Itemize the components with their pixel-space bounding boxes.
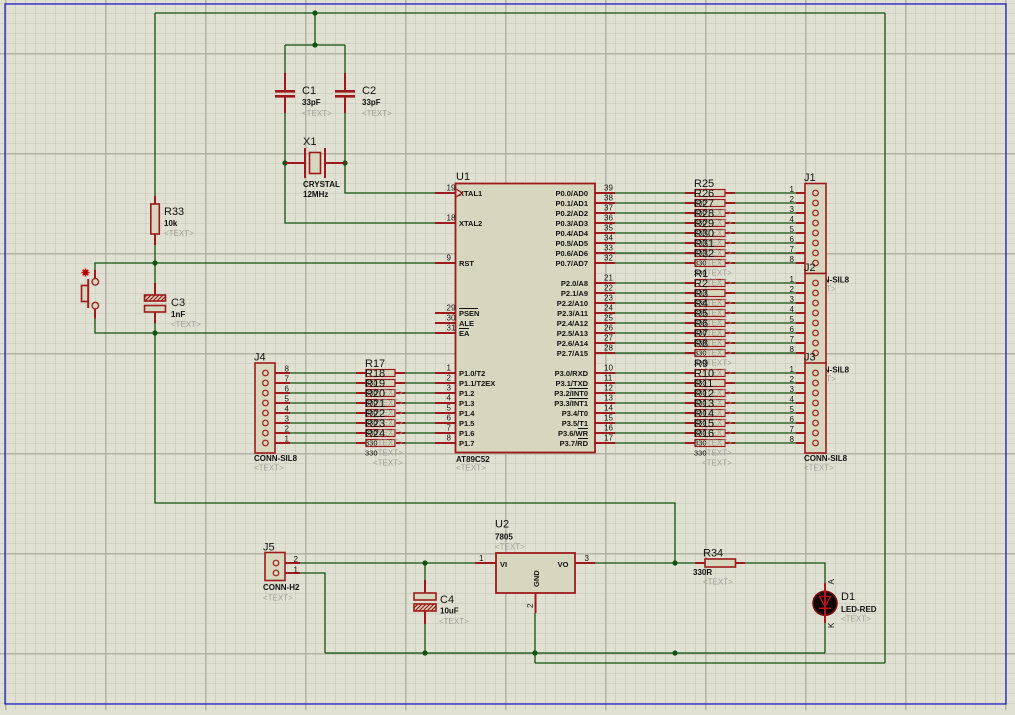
U2 pin 1 (VI) <box>475 554 507 569</box>
svg-text:3: 3 <box>447 384 452 393</box>
svg-text:P0.4/AD4: P0.4/AD4 <box>555 229 588 238</box>
svg-text:4: 4 <box>447 394 452 403</box>
svg-text:6: 6 <box>790 415 795 424</box>
U1 pin 29 (PSEN) <box>435 304 479 319</box>
U1 pin 1 (P1.0/T2) <box>435 364 485 379</box>
resistor R15 330 <box>685 430 735 437</box>
wire R8 to J2 pin 8 <box>735 352 796 354</box>
wire R10 to J3 pin 2 <box>735 382 796 384</box>
J2 pin 1 <box>790 275 819 286</box>
svg-text:P3.3/INT1: P3.3/INT1 <box>554 399 588 408</box>
capacitor C4 10uF <box>414 580 436 624</box>
wire U1 P2.3 to R4 <box>615 312 685 314</box>
svg-text:8: 8 <box>447 434 452 443</box>
J3 pin 7 <box>790 425 819 436</box>
J1 pin 6 <box>790 235 819 246</box>
LED D1 LED-RED <box>812 583 838 623</box>
svg-text:R16: R16 <box>694 428 714 440</box>
svg-text:<TEXT>: <TEXT> <box>254 464 284 473</box>
J3 pin 4 <box>790 395 819 406</box>
svg-text:<TEXT>: <TEXT> <box>373 449 403 458</box>
U1 pin 13 (P3.3/INT1) <box>554 394 615 409</box>
svg-text:5: 5 <box>447 404 452 413</box>
node junction on ground rail A <box>672 650 677 655</box>
wire J4 pin 8 to R17 <box>290 372 356 374</box>
resistor R32 330 <box>685 260 735 267</box>
svg-text:2: 2 <box>790 195 795 204</box>
svg-text:C1: C1 <box>302 85 316 97</box>
wire R7 to J2 pin 7 <box>735 342 796 344</box>
svg-text:34: 34 <box>604 234 613 243</box>
svg-text:C2: C2 <box>362 85 376 97</box>
J2 pin 2 <box>790 285 819 296</box>
U2 pin 3 (VO) <box>558 554 595 569</box>
J2 pin 6 <box>790 325 819 336</box>
U1 pin 22 (P2.1/A9) <box>561 284 615 299</box>
svg-text:CONN-SIL8: CONN-SIL8 <box>804 454 848 463</box>
svg-text:35: 35 <box>604 224 613 233</box>
wire ground rail B <box>535 662 885 664</box>
wire R28 to J1 pin 4 <box>735 222 796 224</box>
svg-text:C4: C4 <box>440 594 454 606</box>
svg-text:7: 7 <box>790 245 795 254</box>
wire RST node to C3 <box>154 263 156 283</box>
wire U1 P0.5 to R30 <box>615 242 685 244</box>
U1 pin 9 (RST) <box>435 254 474 269</box>
svg-text:P3.1/TXD: P3.1/TXD <box>555 379 588 388</box>
svg-text:P1.1/T2EX: P1.1/T2EX <box>459 379 495 388</box>
svg-text:4: 4 <box>790 395 795 404</box>
wire LED cathode to ground rail A <box>824 623 826 653</box>
svg-text:25: 25 <box>604 314 613 323</box>
svg-text:10k: 10k <box>164 219 178 228</box>
svg-text:<TEXT>: <TEXT> <box>702 449 732 458</box>
svg-text:J2: J2 <box>804 262 816 274</box>
svg-text:19: 19 <box>447 184 456 193</box>
U1 pin 8 (P1.7) <box>435 434 474 449</box>
capacitor C2 33pF <box>335 73 355 113</box>
wire C1-C2 top link <box>285 44 345 46</box>
svg-text:6: 6 <box>790 325 795 334</box>
svg-text:30: 30 <box>447 314 456 323</box>
wire J5 pin1 to ground rail A <box>300 573 325 653</box>
svg-text:13: 13 <box>604 394 613 403</box>
U1 pin 4 (P1.3) <box>435 394 474 409</box>
svg-text:1: 1 <box>790 185 795 194</box>
J3 pin 1 <box>790 365 819 376</box>
J1 pin 2 <box>790 195 819 206</box>
J4 pin 8 <box>263 365 290 376</box>
wire U1 P2.1 to R2 <box>615 292 685 294</box>
svg-text:<TEXT>: <TEXT> <box>841 615 871 624</box>
svg-text:2: 2 <box>790 285 795 294</box>
svg-text:GND: GND <box>532 570 541 587</box>
wire R26 to J1 pin 2 <box>735 202 796 204</box>
svg-text:330R: 330R <box>693 568 712 577</box>
J1 pin 1 <box>790 185 819 196</box>
wire U1 P2.2 to R3 <box>615 302 685 304</box>
svg-text:7805: 7805 <box>495 533 513 542</box>
svg-text:PSEN: PSEN <box>459 309 479 318</box>
resistor R5 330 <box>685 320 735 327</box>
svg-text:3: 3 <box>790 205 795 214</box>
svg-text:P0.5/AD5: P0.5/AD5 <box>555 239 588 248</box>
svg-text:LED-RED: LED-RED <box>841 605 877 614</box>
wire VI node to C4 <box>424 563 426 580</box>
svg-text:2: 2 <box>447 374 452 383</box>
push button (reset) <box>82 269 99 319</box>
capacitor C1 33pF <box>275 73 295 113</box>
wire U1 P2.6 to R7 <box>615 342 685 344</box>
resistor R27 330 <box>685 210 735 217</box>
svg-text:P0.2/AD2: P0.2/AD2 <box>555 209 588 218</box>
svg-text:330: 330 <box>365 449 378 458</box>
wire J4 pin 3 to R22 <box>290 422 356 424</box>
J4 pin 7 <box>263 375 290 386</box>
svg-text:5: 5 <box>790 405 795 414</box>
svg-text:P0.0/AD0: P0.0/AD0 <box>555 189 588 198</box>
resistor R9 330 <box>685 370 735 377</box>
J4 pin 3 <box>263 415 290 426</box>
U1 pin 38 (P0.1/AD1) <box>555 194 615 209</box>
svg-text:P0.1/AD1: P0.1/AD1 <box>555 199 588 208</box>
svg-text:P3.6/WR: P3.6/WR <box>558 429 589 438</box>
svg-text:J3: J3 <box>804 352 816 364</box>
U1 pin 11 (P3.1/TXD) <box>555 374 615 389</box>
U1 pin 10 (P3.0/RXD) <box>555 364 615 379</box>
svg-text:1: 1 <box>790 275 795 284</box>
node EA junction <box>152 330 157 335</box>
wire J4 pin 4 to R21 <box>290 412 356 414</box>
wire R5 to J2 pin 5 <box>735 322 796 324</box>
svg-text:21: 21 <box>604 274 613 283</box>
wire RST net <box>155 262 435 264</box>
J3 pin 6 <box>790 415 819 426</box>
connector J4 CONN-SIL8 body <box>255 363 275 453</box>
U1 pin 33 (P0.6/AD6) <box>555 244 615 259</box>
wire EA net <box>155 332 435 334</box>
connector J5 CONN-H2 body <box>265 553 285 581</box>
wire J4 pin 1 to R24 <box>290 442 356 444</box>
wire U1 P2.0 to R1 <box>615 282 685 284</box>
svg-text:4: 4 <box>790 305 795 314</box>
resistor R22 330 <box>356 420 405 427</box>
resistor R7 330 <box>685 340 735 347</box>
U1 pin 36 (P0.3/AD3) <box>555 214 615 229</box>
wire R9 to J3 pin 1 <box>735 372 796 374</box>
resistor R4 330 <box>685 310 735 317</box>
wire U1 P3.0 to R9 <box>615 372 685 374</box>
svg-text:6: 6 <box>790 235 795 244</box>
node junction C2 / crystal right / XTAL1 <box>342 160 347 165</box>
svg-text:P3.2/INT0: P3.2/INT0 <box>554 389 588 398</box>
svg-text:P2.0/A8: P2.0/A8 <box>561 279 588 288</box>
resistor R25 330 <box>685 190 735 197</box>
wire crystal to XTAL1 <box>345 163 435 193</box>
J1 pin 7 <box>790 245 819 256</box>
svg-text:<TEXT>: <TEXT> <box>164 229 194 238</box>
J4 pin 1 <box>263 435 290 446</box>
J2 pin 8 <box>790 345 819 356</box>
wire R1 to J2 pin 1 <box>735 282 796 284</box>
svg-text:R8: R8 <box>694 338 708 350</box>
svg-text:J1: J1 <box>804 172 816 184</box>
svg-text:<TEXT>: <TEXT> <box>703 578 733 587</box>
wire R15 to J3 pin 7 <box>735 432 796 434</box>
wire R13 to J3 pin 5 <box>735 412 796 414</box>
svg-text:J5: J5 <box>263 542 275 554</box>
wire VCC-top rail <box>155 12 885 14</box>
U1 pin 31 (EA) <box>435 324 470 339</box>
svg-text:3: 3 <box>285 415 290 424</box>
resistor R33 10k <box>151 196 160 245</box>
svg-text:6: 6 <box>447 414 452 423</box>
J1 pin 4 <box>790 215 819 226</box>
U1 pin 3 (P1.2) <box>435 384 474 399</box>
node junction ground rail / U2 GND <box>532 650 537 655</box>
svg-text:33pF: 33pF <box>362 98 381 107</box>
wire U1 P2.5 to R6 <box>615 332 685 334</box>
svg-text:P1.6: P1.6 <box>459 429 474 438</box>
U1 pin 26 (P2.5/A13) <box>557 324 615 339</box>
connector J1 CONN-SIL8 body <box>805 184 826 274</box>
node RST junction <box>152 260 157 265</box>
wire R25 to J1 pin 1 <box>735 192 796 194</box>
U1 pin 7 (P1.6) <box>435 424 474 439</box>
resistor R14 330 <box>685 420 735 427</box>
wire ground rail A <box>325 652 825 654</box>
resistor R30 330 <box>685 240 735 247</box>
resistor R17 330 <box>356 370 405 377</box>
U1 pin 18 (XTAL2) <box>435 214 482 229</box>
svg-text:CONN-SIL8: CONN-SIL8 <box>254 454 298 463</box>
svg-text:7: 7 <box>447 424 452 433</box>
svg-text:5: 5 <box>285 395 290 404</box>
svg-text:P3.5/T1: P3.5/T1 <box>562 419 588 428</box>
svg-text:P1.2: P1.2 <box>459 389 474 398</box>
svg-text:4: 4 <box>790 215 795 224</box>
U1 pin 39 (P0.0/AD0) <box>555 184 615 199</box>
wire R31 to J1 pin 7 <box>735 252 796 254</box>
U1 pin 14 (P3.4/T0) <box>562 404 615 419</box>
svg-text:31: 31 <box>447 324 456 333</box>
resistor R29 330 <box>685 230 735 237</box>
resistor R21 330 <box>356 410 405 417</box>
resistor R3 330 <box>685 300 735 307</box>
J3 pin 8 <box>790 435 819 446</box>
svg-text:10: 10 <box>604 364 613 373</box>
svg-text:17: 17 <box>604 434 613 443</box>
wire R21 to U1 P1.4 <box>405 412 435 414</box>
svg-text:R33: R33 <box>164 206 184 218</box>
svg-text:4: 4 <box>285 405 290 414</box>
U1 pin 5 (P1.4) <box>435 404 475 419</box>
connector J3 CONN-SIL8 body <box>805 363 826 453</box>
svg-text:J4: J4 <box>254 352 266 364</box>
svg-text:23: 23 <box>604 294 613 303</box>
svg-text:38: 38 <box>604 194 613 203</box>
J2 pin 7 <box>790 335 819 346</box>
svg-text:12MHz: 12MHz <box>303 190 328 199</box>
wire U1 P2.4 to R5 <box>615 322 685 324</box>
svg-text:P2.6/A14: P2.6/A14 <box>557 339 589 348</box>
U1 pin 37 (P0.2/AD2) <box>555 204 615 219</box>
svg-text:28: 28 <box>604 344 613 353</box>
svg-text:CONN-H2: CONN-H2 <box>263 583 300 592</box>
svg-text:<TEXT>: <TEXT> <box>439 617 469 626</box>
svg-text:P2.1/A9: P2.1/A9 <box>561 289 588 298</box>
U1 pin 19 (XTAL1) <box>435 184 482 199</box>
svg-text:9: 9 <box>447 254 452 263</box>
svg-text:R34: R34 <box>703 548 723 560</box>
J4 pin 2 <box>263 425 290 436</box>
wire R12 to J3 pin 4 <box>735 402 796 404</box>
resistor R23 330 <box>356 430 405 437</box>
svg-text:2: 2 <box>526 603 535 608</box>
wire U1 P3.5 to R14 <box>615 422 685 424</box>
wire R16 to J3 pin 8 <box>735 442 796 444</box>
wire R30 to J1 pin 6 <box>735 242 796 244</box>
wire R6 to J2 pin 6 <box>735 332 796 334</box>
svg-text:24: 24 <box>604 304 613 313</box>
resistor R11 330 <box>685 390 735 397</box>
resistor R31 330 <box>685 250 735 257</box>
U1 pin 24 (P2.3/A11) <box>557 304 615 319</box>
resistor R10 330 <box>685 380 735 387</box>
wire C3 to EA net <box>154 323 156 333</box>
wire C1 to crystal left <box>284 113 286 163</box>
U1 pin 17 (P3.7/RD) <box>560 434 615 449</box>
wire U1 P3.3 to R12 <box>615 402 685 404</box>
resistor R19 330 <box>356 390 405 397</box>
resistor R28 330 <box>685 220 735 227</box>
svg-text:1: 1 <box>790 365 795 374</box>
U1 pin 16 (P3.6/WR) <box>558 424 615 439</box>
wire R4 to J2 pin 4 <box>735 312 796 314</box>
svg-text:5: 5 <box>790 225 795 234</box>
wire R14 to J3 pin 6 <box>735 422 796 424</box>
wire U1 P0.3 to R28 <box>615 222 685 224</box>
wire C2 to crystal right <box>344 113 346 163</box>
svg-text:P2.3/A11: P2.3/A11 <box>557 309 588 318</box>
resistor R12 330 <box>685 400 735 407</box>
svg-text:39: 39 <box>604 184 613 193</box>
wire U1 P0.4 to R29 <box>615 232 685 234</box>
svg-text:VI: VI <box>500 560 507 569</box>
resistor R6 330 <box>685 330 735 337</box>
svg-text:P0.6/AD6: P0.6/AD6 <box>555 249 588 258</box>
J1 pin 5 <box>790 225 819 236</box>
svg-text:1: 1 <box>285 435 290 444</box>
svg-text:12: 12 <box>604 384 613 393</box>
U1 pin 34 (P0.5/AD5) <box>555 234 615 249</box>
svg-text:<TEXT>: <TEXT> <box>362 109 392 118</box>
crystal X1 <box>285 148 345 178</box>
svg-text:P2.5/A13: P2.5/A13 <box>557 329 588 338</box>
svg-text:A: A <box>827 579 836 585</box>
wire R3 to J2 pin 3 <box>735 302 796 304</box>
svg-text:P2.7/A15: P2.7/A15 <box>557 349 588 358</box>
capacitor C3 1nF <box>145 283 166 323</box>
J4 pin 4 <box>263 405 290 416</box>
svg-text:C3: C3 <box>171 297 185 309</box>
svg-text:<TEXT>: <TEXT> <box>702 459 732 468</box>
wire R33 to RST node <box>154 245 156 263</box>
svg-text:15: 15 <box>604 414 613 423</box>
wire R18 to U1 P1.1 <box>405 382 435 384</box>
svg-text:7: 7 <box>285 375 290 384</box>
svg-text:CRYSTAL: CRYSTAL <box>303 180 340 189</box>
J3 pin 5 <box>790 405 819 416</box>
svg-text:1nF: 1nF <box>171 310 185 319</box>
svg-text:1: 1 <box>479 554 484 563</box>
svg-text:18: 18 <box>447 214 456 223</box>
wire J4 pin 2 to R23 <box>290 432 356 434</box>
svg-text:7: 7 <box>790 425 795 434</box>
wire EA net to +5V node <box>155 333 675 563</box>
svg-text:33: 33 <box>604 244 613 253</box>
svg-text:14: 14 <box>604 404 613 413</box>
svg-text:8: 8 <box>790 435 795 444</box>
wire crystal to XTAL2 <box>285 163 435 223</box>
J4 pin 6 <box>263 385 290 396</box>
svg-text:R24: R24 <box>365 428 385 440</box>
wire to C1 <box>284 45 286 73</box>
svg-text:22: 22 <box>604 284 613 293</box>
wire U1 P0.1 to R26 <box>615 202 685 204</box>
wire U1 P3.1 to R10 <box>615 382 685 384</box>
svg-text:P0.7/AD7: P0.7/AD7 <box>555 259 588 268</box>
resistor R16 330 <box>685 440 735 447</box>
wire R19 to U1 P1.2 <box>405 392 435 394</box>
node junction VI / C4 <box>422 560 427 565</box>
wire R27 to J1 pin 3 <box>735 212 796 214</box>
J5 pin 2 <box>273 555 300 566</box>
wire U1 P3.6 to R15 <box>615 432 685 434</box>
svg-text:<TEXT>: <TEXT> <box>373 459 403 468</box>
svg-text:P1.0/T2: P1.0/T2 <box>459 369 485 378</box>
svg-text:26: 26 <box>604 324 613 333</box>
wire U1 P2.7 to R8 <box>615 352 685 354</box>
wire top rail to oscillator <box>314 13 316 45</box>
resistor R18 330 <box>356 380 405 387</box>
J1 pin 3 <box>790 205 819 216</box>
U2 pin 2 (GND) <box>526 570 541 613</box>
wire right vertical rail <box>884 13 886 663</box>
svg-text:8: 8 <box>790 345 795 354</box>
wire C4 to ground rail A <box>424 624 426 653</box>
U1 pin 28 (P2.7/A15) <box>557 344 615 359</box>
svg-text:8: 8 <box>285 365 290 374</box>
svg-text:16: 16 <box>604 424 613 433</box>
svg-text:37: 37 <box>604 204 613 213</box>
U1 pin 12 (P3.2/INT0) <box>554 384 615 399</box>
node junction C1-C2 top link <box>312 42 317 47</box>
svg-text:330: 330 <box>694 449 707 458</box>
U1 pin 35 (P0.4/AD4) <box>555 224 615 239</box>
wire U2 VO to R34 <box>595 562 695 564</box>
svg-text:P2.2/A10: P2.2/A10 <box>557 299 588 308</box>
svg-text:P1.4: P1.4 <box>459 409 475 418</box>
svg-text:3: 3 <box>585 554 590 563</box>
svg-text:<TEXT>: <TEXT> <box>263 594 293 603</box>
U1 pin 2 (P1.1/T2EX) <box>435 374 495 389</box>
svg-text:1: 1 <box>447 364 452 373</box>
wire R2 to J2 pin 2 <box>735 292 796 294</box>
resistor R1 330 <box>685 280 735 287</box>
svg-text:P1.3: P1.3 <box>459 399 474 408</box>
svg-text:<TEXT>: <TEXT> <box>302 109 332 118</box>
